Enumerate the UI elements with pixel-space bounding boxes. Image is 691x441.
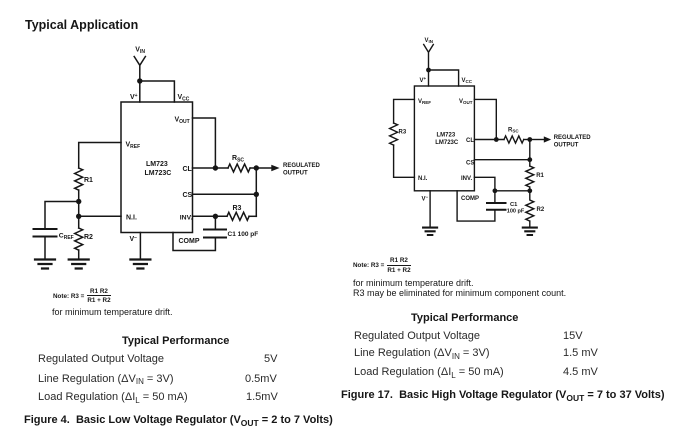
svg-text:C1 100 pF: C1 100 pF [228,231,259,238]
junction dot node B [76,214,81,219]
right performance table [0,0,691,1]
resistor RSC [504,136,524,143]
junction dot at VIN node [137,78,142,83]
resistor R2 [75,228,83,250]
wire VIN node to VCC pin [140,81,175,102]
U2 part number label LM723 / LM723C [435,133,459,147]
wire output node down bus [529,140,531,167]
svg-text:INV.: INV. [180,215,193,222]
R3 value label [399,130,407,136]
wire INV node to C1 [214,216,216,229]
svg-text:VREF: VREF [418,99,431,105]
pin label N.I. [126,215,137,222]
wire VIN node to VCC pin [429,70,459,86]
pin label INV. [180,215,193,222]
junction dot INV node [213,214,218,219]
junction dot output node [254,165,259,170]
R2 value label [537,207,545,213]
svg-text:R2: R2 [84,234,93,241]
svg-text:LM723C: LM723C [145,170,172,177]
svg-text:VIN: VIN [135,47,145,56]
svg-text:RSC: RSC [508,128,519,134]
wire node A to CREF [45,202,79,229]
wire node B to R2 [78,216,80,228]
node VIN input terminal label [135,47,145,56]
svg-text:R1: R1 [84,177,93,184]
pin label V+ [130,93,138,101]
pin label VCC [462,78,473,84]
junction dot node A [76,199,81,204]
wire R3 to N.I. pin [394,145,415,177]
output arrowhead [544,136,551,142]
svg-text:VOUT: VOUT [175,117,190,126]
pin label CS [183,192,193,199]
wire R2 to ground [529,221,531,227]
wire VIN node to V+ pin [428,70,430,86]
wire R3 to bus [249,215,256,217]
C1 value label [507,202,525,215]
VIN input arrow symbol [424,45,434,71]
ground below V- [423,228,437,235]
ground below V- [130,260,150,269]
wire VOUT pin to CL node [474,99,496,139]
R1 value label [84,177,93,184]
R3 value label [233,205,242,212]
pin label VOUT [175,117,190,126]
left note formula [53,288,111,304]
wire CS pin to bus [474,159,529,161]
svg-text:V−: V− [130,235,138,243]
svg-text:V+: V+ [420,76,427,84]
wire V- pin to ground [429,191,431,227]
resistor R3 [390,123,398,145]
svg-text:V+: V+ [130,93,138,101]
svg-text:R3: R3 [399,130,407,136]
junction dot CL node [494,137,499,142]
svg-text:VREF: VREF [126,142,141,151]
svg-text:LM723: LM723 [437,133,456,139]
ground below CREF [35,260,55,269]
op-amp U1 LM723 regulator IC body [121,102,193,233]
wire R2 to ground [78,250,80,259]
wire VREF pin to R1 [79,143,121,169]
junction dot output node [527,137,532,142]
page title [25,18,138,32]
junction dot CS node [254,192,259,197]
resistor R1 [75,168,83,190]
pin label V- [422,195,429,203]
pin label N.I. [418,176,428,182]
pin label INV. [461,176,472,182]
svg-text:R3: R3 [233,205,242,212]
VIN input arrow symbol [134,57,145,82]
pin label V- [130,235,138,243]
svg-text:INV.: INV. [461,176,472,182]
svg-text:VOUT: VOUT [459,99,473,105]
svg-text:CL: CL [183,166,193,173]
pin label COMP [179,238,200,245]
wire node B to N.I. pin [79,215,121,217]
ground below R2 [69,260,89,269]
junction dot CL node [213,165,218,170]
wire V- pin to ground [139,233,141,260]
resistor R1 [526,166,534,187]
RSC value label [508,128,519,134]
svg-text:C1: C1 [510,202,518,208]
svg-text:LM723C: LM723C [435,140,459,146]
node label REGULATED OUTPUT [554,135,592,149]
svg-text:R1: R1 [536,173,544,179]
resistor RSC [228,164,250,172]
svg-text:REGULATED: REGULATED [554,135,592,141]
wire VOUT pin to CL node [193,118,216,168]
svg-text:REGULATED: REGULATED [283,163,321,169]
pin label CL [183,166,193,173]
wire CL pin [474,139,504,141]
wire INV node to C1 [494,191,496,203]
svg-text:VCC: VCC [178,94,190,103]
wire COMP pin to C1 [457,191,495,221]
svg-text:CREF: CREF [59,233,74,241]
wire node A to node B [78,202,80,217]
svg-text:COMP: COMP [179,238,200,245]
CREF value label [59,233,74,241]
R2 value label [84,234,93,241]
pin label VREF [126,142,141,151]
svg-text:OUTPUT: OUTPUT [283,171,308,177]
svg-text:VCC: VCC [462,78,473,84]
svg-text:N.I.: N.I. [418,176,428,182]
wire to output arrow [256,167,271,169]
svg-text:OUTPUT: OUTPUT [554,143,579,149]
wire CS pin to bus [193,193,257,195]
pin label COMP [461,196,479,202]
wire COMP pin to C1 [173,233,215,251]
node label REGULATED OUTPUT [283,163,321,177]
junction dot divider node [527,188,532,193]
wire INV node to divider node [495,190,530,192]
pin label VREF [418,99,431,105]
op-amp U2 LM723 regulator IC body [414,86,474,191]
wire INV pin to C1 node [474,177,495,191]
svg-text:RSC: RSC [232,155,244,164]
wire CREF to ground [44,238,46,260]
C1 value label [228,231,259,238]
wire to output arrow [530,139,544,141]
svg-text:CS: CS [466,161,474,167]
junction dot CS node [527,157,532,162]
resistor R3 [227,212,249,220]
left performance table [0,0,691,1]
wire INV pin to R3 [193,215,228,217]
svg-text:100 pF: 100 pF [507,209,525,215]
wire CL pin [193,167,229,169]
wire RSC to output node [250,167,256,169]
resistor R2 [526,191,534,221]
wire output node down bus [255,168,257,216]
capacitor C1 [204,230,226,238]
svg-text:COMP: COMP [461,196,479,202]
pin label VOUT [459,99,473,105]
pin label CL [466,138,474,144]
node VIN input terminal label [425,38,434,44]
svg-text:CL: CL [466,138,474,144]
junction dot INV node [493,188,498,193]
wire VREF pin to R3 [394,99,415,123]
right note formula [353,257,411,273]
svg-text:V−: V− [422,195,429,203]
figure captions [24,414,333,426]
svg-text:VIN: VIN [425,38,434,44]
wire VIN node to V+ pin [139,81,141,102]
pin label VCC [178,94,190,103]
pin label CS [466,161,474,167]
svg-text:N.I.: N.I. [126,215,137,222]
wire RSC to output node [524,139,530,141]
output arrowhead [271,165,279,172]
svg-text:R2: R2 [537,207,545,213]
U1 part number label LM723 / LM723C [145,161,172,177]
pin label V+ [420,76,427,84]
svg-text:CS: CS [183,192,193,199]
R1 value label [536,173,544,179]
capacitor C1 [487,203,506,210]
ground below R2 [523,228,537,235]
wire R1 to divider node [529,187,531,191]
junction dot at VIN node [426,68,431,73]
RSC value label [232,155,244,164]
wire R1 to node A [78,190,80,201]
capacitor CREF [34,229,57,237]
svg-text:LM723: LM723 [146,161,168,168]
